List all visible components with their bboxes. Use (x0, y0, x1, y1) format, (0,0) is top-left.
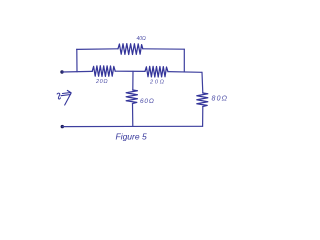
wire top-right vertical (183, 49, 185, 72)
svg-text:20Ω: 20Ω (95, 79, 108, 85)
resistor R2 20Ω zigzag left (92, 66, 115, 77)
resistor R1 40Ω zigzag (118, 44, 143, 55)
wire top horizontal left (77, 48, 118, 51)
svg-text:60Ω: 60Ω (140, 98, 155, 105)
wire middle right (168, 71, 202, 74)
node A left dot (60, 70, 63, 73)
current label I (57, 93, 60, 99)
resistor R4 80Ω vertical zigzag (197, 93, 208, 107)
svg-text:20Ω: 20Ω (149, 80, 166, 86)
wire middle branch upper (60Ω) (132, 71, 134, 90)
wire top horizontal right (143, 48, 185, 50)
wire top-left vertical (76, 49, 78, 71)
wire bottom horizontal (62, 125, 202, 127)
wire right branch lower (202, 107, 204, 127)
resistor R5 60Ω vertical zigzag (126, 90, 137, 104)
wire middle branch lower (132, 104, 134, 127)
resistor R3 20Ω zigzag right (145, 66, 168, 77)
svg-text:40Ω: 40Ω (137, 36, 147, 42)
node B bottom-left dot (61, 125, 64, 128)
current arrow (61, 90, 71, 105)
wire middle left (62, 70, 92, 73)
wire right branch upper (201, 72, 204, 93)
svg-text:80Ω: 80Ω (212, 96, 229, 103)
svg-text:Figure 5: Figure 5 (116, 131, 147, 141)
wire middle center (115, 70, 145, 72)
